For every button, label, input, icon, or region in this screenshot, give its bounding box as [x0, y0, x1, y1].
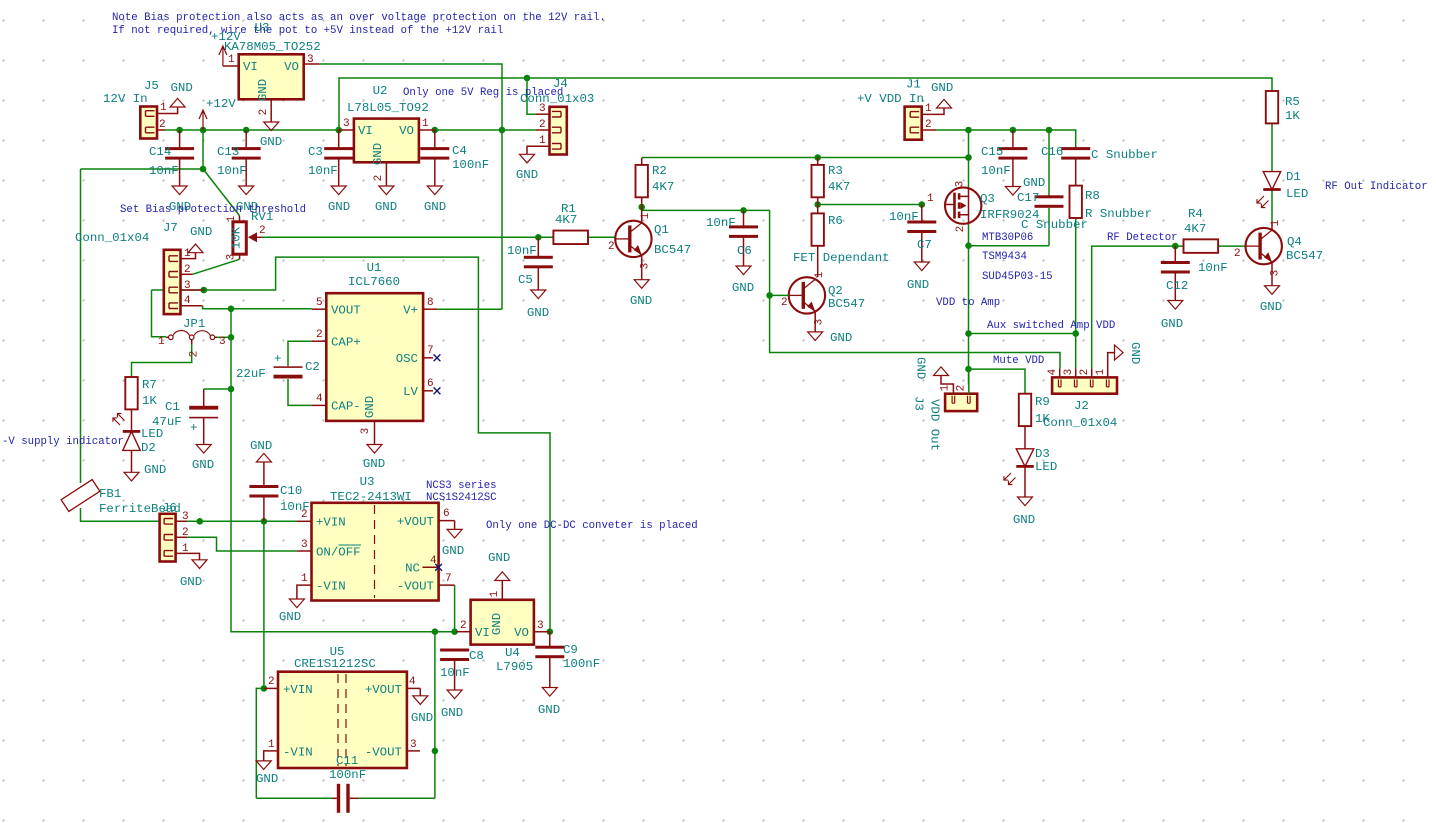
- svg-text:1: 1: [1270, 219, 1282, 226]
- gnd C1: [192, 445, 214, 473]
- capacitor C9: [535, 632, 600, 688]
- svg-text:1: 1: [940, 384, 952, 391]
- gnd Q1: [630, 280, 652, 308]
- svg-text:C3: C3: [308, 145, 323, 159]
- wire RV1 pin3 diagonal to J7 pin 2: [193, 259, 240, 274]
- svg-text:4K7: 4K7: [828, 180, 850, 194]
- capacitor C13: [217, 130, 261, 186]
- svg-text:Q3: Q3: [980, 192, 995, 206]
- junction VDD to R2/R3 rail: [965, 154, 972, 161]
- svg-text:D2: D2: [141, 441, 156, 455]
- gnd J2 pin 1 (right): [1115, 342, 1143, 364]
- svg-text:C17: C17: [1017, 191, 1039, 205]
- svg-text:C11: C11: [336, 754, 358, 768]
- power +12V main: [199, 97, 236, 130]
- connector J7 Conn_01x04: [75, 221, 204, 314]
- svg-text:U4: U4: [505, 646, 520, 660]
- svg-text:JP1: JP1: [183, 317, 205, 331]
- svg-text:3: 3: [360, 428, 372, 435]
- svg-text:C4: C4: [452, 144, 467, 158]
- wire TEC2 -VOUT down to U4 VI row: [454, 585, 456, 632]
- wire D3 to gnd: [1024, 466, 1026, 497]
- svg-text:1: 1: [228, 54, 235, 66]
- svg-text:GND: GND: [830, 331, 852, 345]
- ic U3 TEC2-2413WI: [297, 475, 455, 601]
- svg-text:VI: VI: [358, 124, 373, 138]
- gnd J7 pin 1 (up): [188, 225, 212, 253]
- svg-text:VOUT: VOUT: [331, 304, 361, 318]
- junction C7 / Q3 gate: [919, 201, 926, 208]
- svg-text:Note Bias protection also acts: Note Bias protection also acts as an ove…: [112, 12, 606, 24]
- svg-text:100nF: 100nF: [329, 768, 366, 782]
- svg-text:3: 3: [537, 620, 544, 632]
- svg-text:4: 4: [316, 393, 323, 405]
- svg-text:C12: C12: [1166, 279, 1188, 293]
- gnd Q4: [1260, 286, 1282, 314]
- wire diagonal +12V to RV1 pin 1: [203, 169, 239, 216]
- svg-text:C9: C9: [563, 643, 578, 657]
- jumper JP1: [158, 317, 226, 357]
- svg-text:GND: GND: [171, 81, 193, 95]
- gnd J1 pin 1 (up): [931, 81, 953, 108]
- note FET dependant: [793, 251, 890, 265]
- note only one dc-dc: [486, 520, 698, 532]
- note NCS1S2412SC: [426, 492, 497, 504]
- resistor R9: [1019, 394, 1051, 449]
- svg-text:L78L05_TO92: L78L05_TO92: [347, 101, 429, 115]
- svg-text:10nF: 10nF: [889, 210, 919, 224]
- capacitor C8: [440, 649, 484, 691]
- svg-text:C Snubber: C Snubber: [1091, 148, 1158, 162]
- resistor R1: [553, 202, 588, 244]
- junction C10 bottom: [261, 518, 268, 525]
- gnd C6: [732, 266, 754, 295]
- svg-text:2: 2: [184, 264, 191, 276]
- ic U5 CRE1S1212SC: [264, 645, 421, 768]
- wire D1 to Q4 collector: [1271, 190, 1273, 222]
- svg-text:FET Dependant: FET Dependant: [793, 251, 890, 265]
- junction R3/R6: [814, 201, 821, 208]
- svg-text:LED: LED: [1286, 187, 1308, 201]
- svg-text:Only one DC-DC conveter is pl: Only one DC-DC conveter is placed: [486, 520, 698, 532]
- svg-text:3: 3: [343, 118, 350, 130]
- svg-text:2: 2: [925, 119, 932, 131]
- svg-text:1: 1: [539, 135, 546, 147]
- regulator U4 L7905: [456, 581, 550, 675]
- svg-text:10nF: 10nF: [217, 164, 247, 178]
- svg-text:3: 3: [307, 54, 314, 66]
- svg-text:5: 5: [316, 297, 323, 309]
- svg-text:C13: C13: [217, 145, 239, 159]
- svg-text:6: 6: [443, 508, 450, 520]
- svg-text:3: 3: [184, 280, 191, 292]
- note text line 2: [112, 25, 503, 37]
- svg-text:+VOUT: +VOUT: [365, 683, 402, 697]
- wire R8 bottom to aux row: [1075, 218, 1077, 333]
- nc x at U3 pin 4: [435, 564, 442, 571]
- svg-text:C8: C8: [469, 649, 484, 663]
- svg-text:2: 2: [460, 620, 467, 632]
- svg-text:1: 1: [925, 103, 932, 115]
- capacitor C11: [329, 754, 366, 813]
- junction R8/J2 pin3: [1072, 330, 1079, 337]
- svg-text:1: 1: [226, 215, 238, 222]
- wire J4 pin 3 to +12V rail: [527, 78, 536, 114]
- resistor R6: [812, 205, 843, 278]
- wire C17 bottom lead: [1048, 208, 1050, 246]
- svg-text:J2: J2: [1074, 399, 1089, 413]
- nc x at U1 OSC: [434, 354, 441, 361]
- nc x at U1 LV: [434, 387, 441, 394]
- wire J6 pin3 to U3 +VIN: [187, 520, 297, 522]
- wire C1 lead: [203, 389, 205, 406]
- junction +5V drop: [499, 127, 506, 134]
- wire C1 to -V rail: [204, 388, 231, 390]
- svg-text:3: 3: [226, 254, 238, 261]
- svg-text:1: 1: [301, 573, 308, 585]
- svg-text:2: 2: [373, 175, 385, 182]
- svg-text:8: 8: [427, 297, 434, 309]
- svg-text:GND: GND: [1161, 317, 1183, 331]
- junction U5 -VOUT pin: [432, 748, 439, 755]
- junction J7 pin 3: [201, 287, 208, 294]
- note NCS3 series: [426, 480, 497, 492]
- wire J7 pin3 to JP1 pin 1: [152, 290, 167, 337]
- svg-text:10K: 10K: [230, 226, 244, 249]
- svg-text:GND: GND: [363, 457, 385, 471]
- gnd D2: [124, 463, 166, 481]
- wire J3 feed row: [969, 369, 1026, 394]
- note set bias protection: [120, 204, 306, 216]
- wire J7 pin 4 to U1 VOUT: [203, 306, 312, 309]
- gnd U5 +VOUT: [411, 696, 433, 725]
- svg-text:1: 1: [814, 271, 826, 278]
- svg-text:2: 2: [1234, 248, 1241, 260]
- wire J1 pin 2 to VDD net: [936, 129, 969, 131]
- wire C17 top lead: [1048, 130, 1050, 196]
- svg-text:VI: VI: [475, 626, 490, 640]
- svg-text:3: 3: [1063, 369, 1075, 376]
- junction JP1 pin3: [228, 334, 235, 341]
- svg-text:GND: GND: [914, 357, 928, 379]
- junction Q3 drain: [965, 242, 972, 249]
- svg-text:12V In: 12V In: [103, 92, 148, 106]
- junction R3 top: [814, 154, 821, 161]
- wire bias row to ferrite column: [81, 168, 204, 170]
- svg-text:47uF: 47uF: [152, 415, 182, 429]
- capacitor C2 22uF: [236, 352, 320, 381]
- diode D3 LED: [1002, 447, 1057, 487]
- junction U5 -VOUT / U4 VI: [432, 628, 439, 635]
- note RF Out Indicator: [1325, 181, 1428, 193]
- svg-text:10nF: 10nF: [1198, 261, 1228, 275]
- wire Q3 source column: [968, 130, 970, 188]
- svg-text:FB1: FB1: [99, 487, 121, 501]
- svg-text:R7: R7: [142, 378, 157, 392]
- svg-text:R4: R4: [1188, 207, 1203, 221]
- svg-text:3: 3: [640, 263, 652, 270]
- wire RF detector net: [1092, 246, 1184, 368]
- svg-text:VO: VO: [284, 60, 299, 74]
- svg-text:C10: C10: [280, 484, 302, 498]
- gnd J5 pin 1: [170, 81, 193, 114]
- svg-text:+V VDD In: +V VDD In: [857, 92, 924, 106]
- svg-text:GND: GND: [328, 200, 350, 214]
- svg-text:GND: GND: [256, 79, 270, 101]
- svg-text:U3: U3: [255, 21, 270, 35]
- wire R1 to Q1 base: [588, 236, 615, 238]
- regulator U2 L78L05_TO92: [339, 84, 435, 186]
- junction U1 VOUT: [228, 306, 235, 313]
- svg-text:Conn_01x04: Conn_01x04: [1043, 416, 1117, 430]
- wire aux switched amp vdd row: [969, 333, 1076, 335]
- svg-text:ON/OFF: ON/OFF: [316, 546, 361, 560]
- svg-text:4: 4: [1047, 368, 1059, 375]
- wire VOUT vertical -V rail: [231, 309, 456, 632]
- svg-text:C5: C5: [518, 273, 533, 287]
- svg-text:+12V: +12V: [206, 97, 236, 111]
- gnd C12: [1161, 301, 1183, 332]
- capacitor C12: [1161, 246, 1228, 300]
- wire R3/R6 junction to Q3 gate: [818, 204, 922, 206]
- junction J3 row: [965, 366, 972, 373]
- svg-text:2: 2: [316, 329, 323, 341]
- wire R2 top rail: [642, 157, 969, 159]
- junction R4/C12: [1172, 243, 1179, 250]
- svg-text:C2: C2: [305, 360, 320, 374]
- wire JP1 pin3 to -V rail: [217, 336, 231, 338]
- note Mute VDD: [993, 355, 1044, 367]
- svg-text:GND: GND: [490, 613, 504, 635]
- junction C15 top: [1010, 127, 1017, 134]
- svg-text:+12V: +12V: [211, 30, 241, 44]
- svg-text:GND: GND: [424, 200, 446, 214]
- svg-text:2: 2: [539, 119, 546, 131]
- svg-text:GND: GND: [732, 281, 754, 295]
- ferrite bead FB1: [61, 480, 181, 516]
- svg-text:L7905: L7905: [496, 660, 533, 674]
- svg-text:GND: GND: [260, 135, 282, 149]
- svg-text:2: 2: [1079, 369, 1091, 376]
- junction C1 top: [228, 386, 235, 393]
- svg-text:VI: VI: [243, 60, 258, 74]
- svg-text:GND: GND: [192, 458, 214, 472]
- capacitor C5: [507, 237, 553, 290]
- capacitor C4: [420, 130, 489, 186]
- note TSM9434: [982, 251, 1027, 263]
- svg-text:Aux switched Amp VDD: Aux switched Amp VDD: [987, 320, 1115, 332]
- wire C11 bottom row left: [256, 797, 332, 799]
- svg-text:3: 3: [955, 181, 967, 188]
- svg-text:7: 7: [427, 345, 434, 357]
- svg-text:GND: GND: [411, 711, 433, 725]
- svg-text:C16: C16: [1041, 145, 1063, 159]
- junction C4 top: [432, 127, 439, 134]
- svg-text:ICL7660: ICL7660: [348, 275, 400, 289]
- svg-text:7: 7: [445, 573, 452, 585]
- capacitor C3: [308, 130, 353, 186]
- power +12V at U3 VI: [211, 30, 241, 66]
- transistor Q2 BC547: [770, 271, 866, 332]
- svg-text:D3: D3: [1035, 447, 1050, 461]
- junction U2 VI: [335, 127, 342, 134]
- svg-text:GND: GND: [144, 463, 166, 477]
- svg-text:Q2: Q2: [828, 284, 843, 298]
- svg-text:CAP-: CAP-: [331, 400, 361, 414]
- svg-text:NCS3 series: NCS3 series: [426, 480, 497, 492]
- wire U1 CAP+ to C2: [288, 341, 312, 366]
- svg-text:Mute VDD: Mute VDD: [993, 355, 1044, 367]
- svg-text:Q4: Q4: [1287, 235, 1302, 249]
- svg-text:1K: 1K: [1285, 109, 1300, 123]
- svg-text:R Snubber: R Snubber: [1085, 207, 1152, 221]
- svg-text:RV1: RV1: [251, 210, 273, 224]
- svg-text:4K7: 4K7: [652, 180, 674, 194]
- svg-text:10nF: 10nF: [149, 164, 179, 178]
- svg-text:MTB30P06: MTB30P06: [982, 232, 1033, 244]
- svg-text:2: 2: [608, 241, 615, 253]
- svg-text:10nF: 10nF: [706, 216, 736, 230]
- svg-text:2: 2: [159, 119, 166, 131]
- svg-text:10nF: 10nF: [440, 666, 470, 680]
- junction C5/R1/RV1: [535, 234, 542, 241]
- svg-text:TEC2-2413WI: TEC2-2413WI: [330, 490, 412, 504]
- svg-text:GND: GND: [180, 575, 202, 589]
- svg-text:+: +: [190, 421, 197, 435]
- wire ferrite bead column: [80, 169, 82, 483]
- svg-text:-VOUT: -VOUT: [365, 746, 402, 760]
- svg-text:GND: GND: [371, 143, 385, 165]
- wire U5 -VOUT vertical: [434, 632, 436, 799]
- svg-text:SUD45P03-15: SUD45P03-15: [982, 271, 1053, 283]
- svg-text:1: 1: [422, 118, 429, 130]
- svg-text:GND: GND: [527, 306, 549, 320]
- connector J3 VDD Out: [912, 369, 978, 451]
- svg-text:U2: U2: [373, 84, 388, 98]
- svg-text:3: 3: [539, 103, 546, 115]
- svg-text:Q1: Q1: [654, 223, 669, 237]
- gnd U3 +VOUT: [442, 529, 464, 558]
- svg-text:VDD to Amp: VDD to Amp: [936, 297, 1000, 309]
- svg-text:GND: GND: [1023, 176, 1045, 190]
- connector J1: [857, 78, 944, 140]
- junction aux row: [965, 330, 972, 337]
- svg-text:Conn_01x03: Conn_01x03: [520, 92, 594, 106]
- svg-text:4K7: 4K7: [555, 213, 577, 227]
- svg-text:2: 2: [301, 509, 308, 521]
- note text line 1: [112, 12, 606, 24]
- svg-text:GND: GND: [375, 200, 397, 214]
- resistor R5: [1266, 91, 1301, 123]
- svg-text:R3: R3: [828, 164, 843, 178]
- svg-text:J6: J6: [162, 501, 177, 515]
- transistor Q3 IRFR9024 P-MOSFET: [927, 181, 1040, 233]
- svg-text:2: 2: [781, 297, 788, 309]
- svg-text:4: 4: [409, 676, 416, 688]
- gnd U3 KA78M05: [260, 122, 282, 149]
- svg-text:10nF: 10nF: [308, 164, 338, 178]
- svg-text:GND: GND: [538, 703, 560, 717]
- svg-text:-VIN: -VIN: [316, 580, 346, 594]
- gnd U2: [375, 186, 397, 214]
- resistor R4: [1184, 207, 1219, 253]
- wire R5 to D1: [1271, 123, 1273, 171]
- svg-text:4: 4: [184, 295, 191, 307]
- wire Q3 drain column: [968, 224, 970, 385]
- svg-text:C15: C15: [981, 145, 1003, 159]
- gnd C9: [538, 688, 560, 718]
- capacitor C17: [1017, 191, 1088, 232]
- svg-text:GND: GND: [442, 544, 464, 558]
- svg-text:22uF: 22uF: [236, 367, 266, 381]
- svg-text:3: 3: [1270, 270, 1282, 277]
- capacitor C10: [249, 462, 309, 521]
- note Aux switched Amp VDD: [987, 320, 1115, 332]
- svg-text:100nF: 100nF: [563, 657, 600, 671]
- svg-text:6: 6: [427, 378, 434, 390]
- svg-text:LV: LV: [403, 385, 418, 399]
- wire C11 bottom row right: [358, 797, 435, 799]
- wire VDD rail to C16: [1049, 130, 1076, 149]
- svg-text:3: 3: [219, 336, 226, 348]
- svg-text:GND: GND: [190, 225, 212, 239]
- junction Q1 collector / R2: [638, 204, 645, 211]
- svg-text:-V supply indicator: -V supply indicator: [2, 436, 124, 448]
- wire +12V rail from J5 to U2 VI: [165, 129, 339, 131]
- wire RV1 wiper to R1: [261, 236, 553, 238]
- svg-text:4K7: 4K7: [1184, 222, 1206, 236]
- gnd J3 pin 1 (up): [914, 357, 949, 379]
- junction J4 pin3 rail: [524, 75, 531, 82]
- svg-text:1: 1: [160, 102, 167, 114]
- connector J6: [160, 501, 200, 562]
- svg-text:2: 2: [182, 527, 189, 539]
- svg-text:1: 1: [927, 193, 934, 205]
- junction U4 VO / C9: [547, 628, 554, 635]
- wire J7 pin 3 net to U4 VO (-5V): [152, 257, 551, 632]
- svg-text:U1: U1: [367, 261, 382, 275]
- svg-text:2: 2: [259, 225, 266, 237]
- junction J6 pin 3: [197, 518, 204, 525]
- svg-text:+VIN: +VIN: [283, 683, 313, 697]
- note SUD45P03-15: [982, 271, 1053, 283]
- svg-text:NC: NC: [405, 562, 420, 576]
- svg-text:GND: GND: [1013, 513, 1035, 527]
- svg-text:R8: R8: [1085, 189, 1100, 203]
- svg-text:BC547: BC547: [1286, 249, 1323, 263]
- svg-text:LED: LED: [141, 427, 163, 441]
- svg-text:2: 2: [258, 109, 270, 116]
- svg-text:GND: GND: [279, 610, 301, 624]
- svg-text:2: 2: [189, 351, 201, 358]
- svg-text:Conn_01x04: Conn_01x04: [75, 231, 149, 245]
- wire +12V top rail to R5: [339, 78, 1272, 130]
- gnd C5: [527, 290, 549, 320]
- svg-text:J4: J4: [553, 77, 568, 91]
- wire Q3 drain row to C17: [969, 245, 1050, 247]
- svg-text:GND: GND: [1128, 342, 1142, 364]
- svg-text:NCS1S2412SC: NCS1S2412SC: [426, 492, 497, 504]
- svg-text:GND: GND: [363, 396, 377, 418]
- gnd U3 -VIN: [279, 599, 305, 624]
- svg-text:3: 3: [182, 511, 189, 523]
- connector J2 Conn_01x04: [1043, 353, 1117, 430]
- resistor R8: [1070, 158, 1152, 221]
- svg-text:GND: GND: [488, 551, 510, 565]
- svg-text:1: 1: [158, 336, 165, 348]
- note VDD to Amp: [936, 297, 1000, 309]
- note -V supply indicator: [2, 436, 124, 448]
